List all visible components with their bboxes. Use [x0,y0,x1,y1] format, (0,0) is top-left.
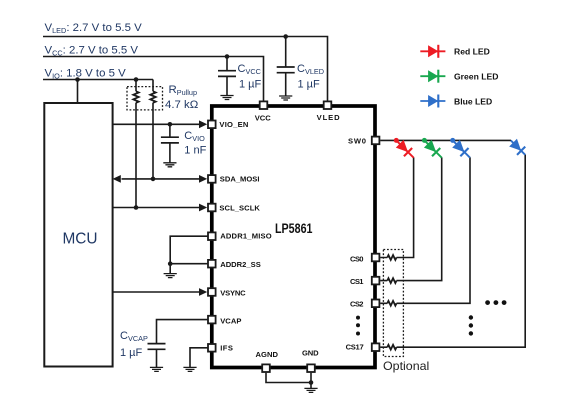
svg-text:ADDR2_SS: ADDR2_SS [220,260,261,269]
svg-text:CS17: CS17 [346,343,364,352]
svg-text:SW0: SW0 [348,137,366,146]
svg-text:VCC: 2.7 V to 5.5 V: VCC: 2.7 V to 5.5 V [45,45,139,58]
svg-text:CS2: CS2 [350,300,364,309]
svg-text:4.7 kΩ: 4.7 kΩ [165,99,199,111]
svg-text:Red LED: Red LED [454,47,490,57]
svg-text:Optional: Optional [383,359,429,373]
svg-text:MCU: MCU [62,230,97,247]
svg-text:RPullup: RPullup [169,84,198,97]
svg-text:1 µF: 1 µF [120,347,143,359]
svg-text:SDA_MOSI: SDA_MOSI [220,174,260,183]
svg-text:Blue LED: Blue LED [454,96,492,106]
svg-text:CVIO: CVIO [184,130,205,143]
svg-text:LP5861: LP5861 [275,221,313,236]
svg-text:VLED: 2.7 V to 5.5 V: VLED: 2.7 V to 5.5 V [45,22,143,35]
svg-text:CS1: CS1 [350,277,364,286]
svg-text:CVCC: CVCC [238,63,261,76]
svg-text:SCL_SCLK: SCL_SCLK [219,203,260,212]
svg-text:1 nF: 1 nF [184,145,206,157]
svg-text:VLED: VLED [317,113,341,122]
svg-text:GND: GND [302,349,319,358]
svg-text:1 µF: 1 µF [239,79,262,91]
svg-text:Green LED: Green LED [454,72,498,82]
svg-text:IFS: IFS [220,344,233,353]
svg-text:AGND: AGND [256,350,279,359]
svg-text:ADDR1_MISO: ADDR1_MISO [220,231,272,240]
svg-text:CVLED: CVLED [297,63,324,76]
svg-text:VSYNC: VSYNC [220,289,246,298]
svg-text:VIO_EN: VIO_EN [219,120,248,129]
svg-text:CS0: CS0 [350,255,364,264]
svg-text:VIO: 1.8 V to 5 V: VIO: 1.8 V to 5 V [45,68,127,81]
svg-text:CVCAP: CVCAP [120,330,148,343]
svg-text:1 µF: 1 µF [298,79,321,91]
svg-text:VCAP: VCAP [220,316,241,325]
svg-text:VCC: VCC [255,114,271,123]
